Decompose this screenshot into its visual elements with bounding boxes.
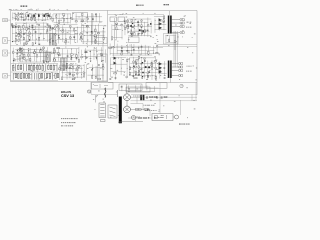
pilot lamp La1 xyxy=(87,90,90,93)
transformer feed wire xyxy=(126,84,128,93)
wire xyxy=(128,34,151,36)
capacitor C290 xyxy=(131,33,133,34)
resistor R182 xyxy=(70,54,73,55)
wire xyxy=(75,16,102,18)
wire xyxy=(165,34,176,36)
resistor R267 xyxy=(92,75,93,78)
capacitor C377 xyxy=(138,74,140,75)
supply bottom wire xyxy=(119,120,143,122)
value label xyxy=(63,68,64,71)
wire xyxy=(42,13,44,20)
transistor T121 xyxy=(69,25,71,27)
wire xyxy=(62,72,86,74)
resistor R224 xyxy=(48,65,49,69)
sense wire xyxy=(179,100,181,115)
mid bus wire xyxy=(11,45,108,47)
mains voltage labels xyxy=(144,104,155,107)
wire xyxy=(91,64,93,78)
wire xyxy=(127,18,151,20)
output diode D12 xyxy=(159,26,162,29)
long vertical wire C xyxy=(114,18,116,46)
capacitor C216 lead xyxy=(26,65,28,72)
diode D187 xyxy=(71,57,73,58)
wire xyxy=(66,50,68,63)
lamp feed wire xyxy=(90,82,92,94)
wire xyxy=(98,24,100,46)
speaker return wire B xyxy=(175,31,177,68)
capacitor C12 xyxy=(45,13,47,14)
resistor R146 xyxy=(19,48,22,49)
resistor R234 xyxy=(28,73,29,78)
value label xyxy=(14,17,16,20)
diode D306 xyxy=(141,27,143,28)
resistor R374 xyxy=(152,67,153,70)
component xyxy=(182,19,184,21)
wire xyxy=(27,14,29,21)
output diode D22 xyxy=(159,70,162,73)
wire xyxy=(12,12,14,20)
wire xyxy=(127,19,129,34)
wire xyxy=(49,24,51,44)
component xyxy=(182,26,184,28)
resistor R186 xyxy=(53,59,55,60)
node N339 xyxy=(152,52,155,55)
driver rail wire xyxy=(108,14,164,16)
wire xyxy=(130,21,132,36)
right block annotation specks xyxy=(111,13,197,80)
resistor R37 xyxy=(63,13,64,16)
resistor R27 xyxy=(25,16,26,19)
wire xyxy=(141,59,143,77)
wire xyxy=(46,27,48,43)
node N383 xyxy=(126,67,129,70)
transistor T53 xyxy=(28,32,30,34)
resistor R192 xyxy=(57,47,59,48)
resistor R88 xyxy=(26,42,27,45)
rectifier link wire xyxy=(126,101,128,106)
wire xyxy=(55,30,76,32)
transistor T8 xyxy=(70,63,72,65)
supply annotation specks xyxy=(93,84,195,118)
wire xyxy=(45,14,47,21)
resistor R239 xyxy=(41,73,42,78)
output network box xyxy=(164,34,179,45)
transistor T291 xyxy=(130,32,132,34)
socket lead wire xyxy=(7,19,10,21)
diode D207 xyxy=(95,57,97,58)
bias diode D16 xyxy=(114,62,117,65)
capacitor C11 xyxy=(23,19,25,20)
capacitor C393 xyxy=(121,86,123,87)
resistor R238 xyxy=(39,73,40,78)
value label xyxy=(100,21,101,24)
wire xyxy=(116,44,118,55)
wire xyxy=(23,13,25,22)
value label xyxy=(94,47,95,50)
capacitor C176 xyxy=(33,53,35,54)
bottom rail left channel xyxy=(11,81,108,83)
diode D331 xyxy=(138,48,140,49)
capacitor C255 xyxy=(66,66,68,67)
capacitor C174 xyxy=(20,48,22,49)
component xyxy=(154,96,157,98)
resistor R16 xyxy=(34,18,35,21)
value label xyxy=(40,33,41,36)
transistor T299 xyxy=(127,25,129,27)
diode D204 xyxy=(101,61,103,62)
wire xyxy=(17,13,19,20)
resistor R7 xyxy=(50,16,51,18)
wire xyxy=(83,64,85,77)
wire xyxy=(140,45,142,55)
wire xyxy=(121,26,123,39)
wire xyxy=(30,64,32,66)
wire xyxy=(45,64,47,66)
resistor row rail 2 xyxy=(11,71,58,73)
wire xyxy=(11,24,13,41)
diode D205 xyxy=(89,51,91,52)
capacitor C375 xyxy=(147,77,149,78)
supply diode D91 xyxy=(154,117,156,119)
speaker return wire A xyxy=(173,31,175,68)
input socket BU1 xyxy=(3,19,8,22)
output diode D21 xyxy=(159,66,162,69)
wire xyxy=(110,63,127,65)
node N361 xyxy=(128,66,131,69)
node N206 xyxy=(93,53,96,56)
capacitor C322 xyxy=(121,47,123,48)
capacitor C333 xyxy=(133,49,135,50)
wire xyxy=(80,21,103,23)
rectifier bridge Gl1 xyxy=(124,94,131,101)
resistor R266 xyxy=(72,74,74,75)
header label power section xyxy=(164,4,169,5)
transistor T356 xyxy=(155,67,157,69)
transistor T370 xyxy=(133,67,135,69)
supply value labels a xyxy=(133,95,143,98)
transistor T39 xyxy=(87,18,89,20)
capacitor C210 xyxy=(101,55,103,56)
wire xyxy=(46,47,48,60)
wire xyxy=(26,22,28,44)
input socket BU3 xyxy=(3,50,8,56)
left border wire xyxy=(10,11,12,82)
value label xyxy=(111,76,113,79)
value label xyxy=(132,32,134,35)
wire xyxy=(139,85,141,92)
diode D388 xyxy=(159,70,161,71)
supply drop wire 4 xyxy=(135,118,137,121)
diode D62 xyxy=(28,28,30,29)
wire xyxy=(52,14,54,23)
resistor R185 xyxy=(78,59,79,62)
relay labels xyxy=(115,13,127,16)
resistor R244 xyxy=(55,73,56,78)
value label xyxy=(71,67,73,70)
resistor row rail 3 xyxy=(11,79,58,81)
resistor R67 xyxy=(39,37,40,40)
transistor T51 xyxy=(18,33,20,35)
regulator parts xyxy=(155,115,167,119)
resistor R226 xyxy=(53,65,54,70)
resistor R33 xyxy=(52,19,53,21)
preamp rail wire B xyxy=(12,33,70,35)
supply capacitor C94 xyxy=(146,96,148,98)
node N36 xyxy=(55,13,58,16)
capacitor C362 xyxy=(151,62,153,63)
resistor R222 xyxy=(42,65,43,70)
wire xyxy=(61,63,63,79)
value label xyxy=(134,70,135,73)
resistor row value labels xyxy=(16,65,56,79)
resistor R220 xyxy=(37,65,38,69)
wire xyxy=(144,45,146,56)
switch box S1 xyxy=(73,13,88,20)
wire xyxy=(130,62,155,64)
wire xyxy=(95,66,97,77)
value label xyxy=(75,32,77,35)
wire xyxy=(87,74,103,76)
wire xyxy=(32,26,34,41)
dc rail wire 2 xyxy=(145,96,197,98)
wire xyxy=(53,57,79,59)
wire xyxy=(141,20,143,37)
capacitor C349 xyxy=(132,75,134,76)
wire xyxy=(33,50,35,62)
capacitor C181 xyxy=(70,58,72,59)
supply link wire B xyxy=(142,104,144,110)
capacitor C158 xyxy=(16,53,18,54)
wire xyxy=(42,22,44,40)
capacitor C150 xyxy=(19,52,21,53)
value label xyxy=(160,19,162,22)
capacitor C268 xyxy=(91,69,93,70)
wire xyxy=(57,48,79,50)
wire xyxy=(144,57,146,78)
resistor R196 xyxy=(53,48,54,51)
resistor R167 xyxy=(13,51,14,53)
resistor R372 xyxy=(135,72,136,75)
resistor R52 xyxy=(23,25,24,28)
wire xyxy=(135,60,137,76)
value label xyxy=(75,29,77,32)
dc return rail wire xyxy=(131,100,198,102)
tone switch contact bank xyxy=(61,58,68,71)
capacitor C336 xyxy=(121,50,123,51)
wire xyxy=(95,25,97,41)
diode D301 xyxy=(124,21,126,22)
mains switch contacts xyxy=(110,107,116,117)
wire xyxy=(102,64,104,79)
wire xyxy=(155,28,167,30)
node N131 xyxy=(90,30,93,33)
wire xyxy=(23,23,25,41)
resistor R284 xyxy=(141,25,142,28)
transistor T21 xyxy=(31,15,33,17)
capacitor C102 xyxy=(73,36,75,37)
header fine print row xyxy=(9,9,68,11)
component xyxy=(140,95,142,100)
resistor R330 xyxy=(112,47,115,48)
transistor T282 xyxy=(141,20,143,22)
wire xyxy=(58,28,60,44)
capacitor C240 lead xyxy=(43,73,45,80)
wire xyxy=(112,46,114,56)
wire xyxy=(87,14,89,23)
component xyxy=(138,109,141,111)
component xyxy=(144,109,147,111)
capacitor C31 xyxy=(58,22,60,23)
component xyxy=(135,109,138,111)
wire xyxy=(70,14,72,24)
diode D50 xyxy=(35,43,37,44)
capacitor C380 xyxy=(115,77,117,78)
resistor R126 xyxy=(80,39,83,40)
supply value labels b xyxy=(145,109,157,112)
node N384 xyxy=(120,67,123,70)
resistor R22 xyxy=(15,14,16,17)
diode D112 xyxy=(73,37,75,38)
supply value labels d xyxy=(155,116,163,119)
wire xyxy=(62,76,84,78)
capacitor C106 xyxy=(58,37,60,38)
wire xyxy=(69,27,71,44)
transistor T7 xyxy=(63,65,65,67)
node N13 xyxy=(17,13,20,16)
socket lead wire xyxy=(7,52,10,54)
wire xyxy=(15,64,17,66)
socket pin marks xyxy=(4,20,7,21)
imprint text line 2 xyxy=(61,121,76,124)
value label xyxy=(33,28,35,31)
wire xyxy=(95,14,97,22)
wire xyxy=(81,50,83,60)
capacitor C353 xyxy=(141,68,143,69)
wire xyxy=(16,39,51,41)
driver stage junctions xyxy=(130,21,151,31)
node N178 xyxy=(33,49,36,52)
component xyxy=(182,32,184,34)
diode D323 xyxy=(121,50,123,51)
capacitor C215 lead xyxy=(23,65,25,72)
node N281 xyxy=(137,34,140,37)
wire xyxy=(150,21,152,34)
resistor R43 xyxy=(82,13,83,16)
right border wire xyxy=(196,11,198,96)
wire xyxy=(111,71,125,73)
diode D105 xyxy=(58,36,60,37)
wire xyxy=(158,20,160,31)
resistor R137 xyxy=(95,29,96,32)
diode D148 xyxy=(17,50,19,51)
wire xyxy=(116,45,151,47)
dc rail wire 3 xyxy=(131,108,151,110)
node N107 xyxy=(55,39,58,42)
wire xyxy=(105,49,107,62)
capacitor C228 lead xyxy=(12,73,14,80)
resistor R288 xyxy=(141,31,142,34)
resistor R132 xyxy=(103,37,104,39)
wire xyxy=(76,64,78,78)
capacitor C58 xyxy=(15,36,17,37)
value label xyxy=(128,58,130,61)
wire xyxy=(153,86,155,92)
transistor T350 xyxy=(135,61,137,63)
component xyxy=(181,75,183,77)
diode D201 xyxy=(96,58,98,59)
resistor R314 xyxy=(163,16,164,19)
node N276 xyxy=(130,26,133,29)
transistor T64 xyxy=(49,25,51,27)
capacitor C387 xyxy=(109,78,111,79)
value label xyxy=(67,31,69,34)
resistor R324 xyxy=(156,52,158,53)
component xyxy=(182,22,184,24)
wire xyxy=(63,13,65,22)
feedback wire B xyxy=(158,46,197,48)
capacitor C35 xyxy=(63,15,65,16)
wire xyxy=(72,64,74,77)
capacitor C212 lead xyxy=(15,65,17,72)
resistor R358 xyxy=(155,76,156,79)
transistor T338 xyxy=(156,45,158,47)
output diode D11 xyxy=(159,22,162,25)
resistor R318 xyxy=(174,41,175,43)
resistor R209 xyxy=(101,53,102,55)
wire xyxy=(112,54,152,56)
capacitor C302 xyxy=(138,24,140,25)
wire xyxy=(53,64,55,66)
transistor T114 xyxy=(54,33,56,35)
wire xyxy=(16,22,47,24)
value label xyxy=(137,58,139,61)
value label xyxy=(128,51,130,54)
transistor T69 xyxy=(26,43,28,45)
speaker wire xyxy=(172,75,179,77)
wire xyxy=(130,44,132,55)
transistor T97 xyxy=(58,28,60,30)
wire xyxy=(159,63,166,65)
component xyxy=(150,96,153,98)
diode D140 xyxy=(86,25,88,26)
wire xyxy=(126,57,128,76)
component xyxy=(119,97,122,124)
resistor R29 xyxy=(63,19,64,21)
wire xyxy=(82,31,106,33)
diode D63 xyxy=(18,27,20,28)
transistor T354 xyxy=(144,57,146,59)
supply rail wire xyxy=(131,94,197,96)
resistor R260 xyxy=(69,72,70,74)
resistor R100 xyxy=(55,43,56,46)
node N325 xyxy=(112,45,115,48)
capacitor C68 xyxy=(47,24,49,25)
wire xyxy=(174,36,176,43)
wire xyxy=(55,25,57,44)
transistor T113 xyxy=(54,26,56,28)
header label tuner section xyxy=(21,6,28,7)
resistor row rail 1 xyxy=(11,63,58,65)
resistor R381 xyxy=(127,59,128,61)
capacitor C48 xyxy=(38,24,40,25)
transistor T23 xyxy=(17,19,19,21)
wire xyxy=(36,64,38,66)
wire xyxy=(38,14,40,21)
value label xyxy=(22,16,24,19)
terminal LS8 xyxy=(178,75,180,77)
wire xyxy=(83,25,85,42)
resistor R310 xyxy=(112,37,113,40)
